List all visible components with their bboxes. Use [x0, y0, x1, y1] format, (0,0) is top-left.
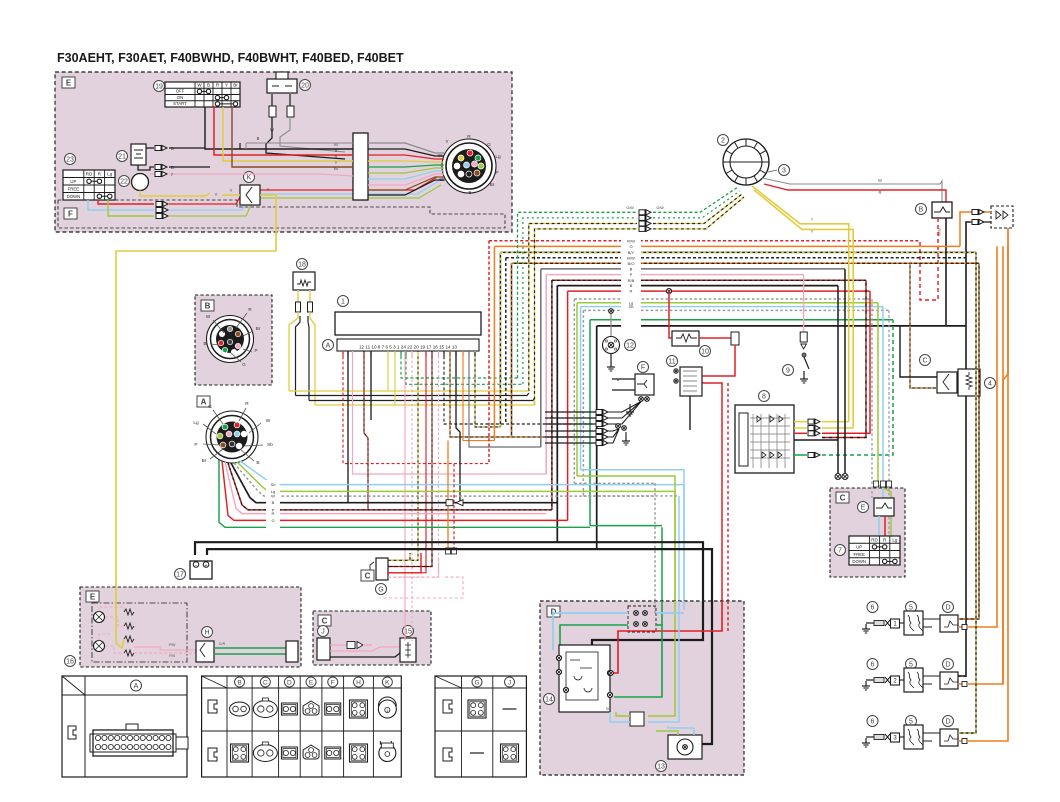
spark plug D row 2	[943, 659, 954, 670]
CDI outputs Y2	[794, 427, 807, 429]
bus wire P y=274.6	[546, 274, 803, 276]
svg-text:A: A	[201, 398, 207, 407]
label 14	[544, 694, 555, 705]
legend connector H row1	[350, 700, 368, 718]
plug number box 2	[891, 676, 900, 685]
svg-text:14: 14	[545, 697, 553, 704]
svg-text:P: P	[630, 272, 633, 277]
legend corner glyph row1	[208, 700, 217, 713]
fan wires joint bar to round connector	[368, 143, 444, 153]
bus wire RB y=280.3	[552, 279, 866, 281]
label 8	[759, 391, 770, 402]
svg-text:Lg: Lg	[107, 172, 113, 177]
wire O diode right edge down	[1003, 228, 1008, 684]
legend table A	[62, 676, 187, 777]
battery cable 1	[195, 542, 703, 601]
svg-text:Sb: Sb	[267, 442, 273, 448]
label B	[201, 300, 214, 311]
bus corner vertical Wd x=574.3	[573, 299, 575, 483]
svg-text:G: G	[208, 404, 212, 410]
bus corner vertical O x=494.4	[493, 246, 495, 440]
svg-text:Y: Y	[335, 160, 338, 165]
grounds below CDI	[837, 286, 839, 473]
bus wire B y=325.9	[597, 325, 966, 327]
svg-text:E: E	[90, 593, 96, 602]
ground joint 2	[625, 432, 627, 436]
svg-text:Lg: Lg	[495, 154, 501, 160]
plug number box 1	[891, 619, 900, 628]
legend table B-K	[202, 676, 402, 777]
ignition coil 5 row 1	[906, 602, 917, 613]
svg-text:W: W	[271, 494, 275, 499]
wire W flywheel to rectifier	[762, 178, 942, 202]
svg-text:B: B	[468, 190, 471, 196]
label 13	[656, 761, 667, 772]
svg-text:UP: UP	[70, 179, 76, 184]
svg-text:3: 3	[782, 168, 786, 175]
svg-text:B/W: B/W	[627, 255, 635, 260]
label 11	[667, 356, 678, 367]
indicator lamp 1	[94, 612, 105, 623]
bus wire BW y=257.8	[506, 257, 966, 259]
bus corner vertical RB x=551.9	[551, 280, 553, 510]
thermo leads Y/B	[297, 290, 299, 302]
wire B CDI to ground stem	[794, 439, 838, 441]
svg-text:START: START	[173, 101, 187, 106]
svg-text:D: D	[945, 719, 950, 726]
connector pair block	[630, 712, 644, 726]
label A	[197, 396, 210, 407]
bus wire BO y=263.2	[512, 262, 980, 264]
label J	[318, 626, 329, 637]
legend header D	[284, 677, 294, 687]
wire R bus to fuse	[666, 289, 671, 294]
svg-text:W: W	[878, 178, 882, 183]
ground 2 label 6	[867, 659, 878, 670]
bus corner vertical P x=546.2	[545, 275, 547, 474]
label 21	[117, 151, 128, 162]
svg-text:OFF: OFF	[176, 89, 185, 94]
svg-text:P: P	[495, 170, 498, 176]
svg-text:Lg: Lg	[193, 420, 199, 426]
connector C and ignition coil 4	[920, 355, 931, 366]
label C	[836, 492, 849, 503]
svg-text:−: −	[195, 563, 198, 569]
svg-text:B: B	[919, 207, 924, 214]
PTT switch box C right	[830, 488, 905, 577]
main connector A (10-pin round)	[206, 411, 258, 463]
svg-text:F30AEHT, F30AET, F40BWHD, F40B: F30AEHT, F30AET, F40BWHD, F40BWHT, F40BE…	[57, 51, 404, 65]
svg-text:A: A	[326, 343, 331, 350]
legend connector D row2	[281, 747, 297, 759]
legend connector H row2	[350, 744, 368, 762]
connector box B	[195, 295, 272, 385]
fuel injection component F	[635, 374, 654, 395]
label 16	[65, 656, 76, 667]
bundle label strip	[266, 480, 280, 532]
flywheel magneto 2	[723, 139, 769, 185]
ECU pin color labels	[342, 352, 344, 357]
svg-text:Lg: Lg	[892, 537, 898, 542]
warning buzzer 22	[132, 174, 149, 191]
PTT relay unit	[559, 645, 610, 712]
legend connector C row2	[253, 745, 277, 762]
label G	[376, 584, 387, 595]
legend corner glyph row2	[208, 748, 217, 761]
svg-text:F: F	[68, 210, 73, 219]
svg-text:4: 4	[988, 381, 992, 388]
bundle wire Lg y=491.4	[237, 462, 675, 491]
legend J row1	[503, 708, 517, 710]
wires into box C	[871, 299, 873, 498]
svg-text:W: W	[334, 142, 338, 147]
bullet connectors on PTT wires	[873, 481, 878, 487]
bus corner vertical BW x=505.8	[505, 258, 507, 424]
wire Sb staircase into box D	[581, 470, 684, 610]
svg-text:6: 6	[871, 719, 875, 726]
label C	[318, 615, 331, 626]
bundle wire P y=513.6	[225, 462, 546, 514]
bus corner vertical Wd x=583.4	[582, 310, 584, 496]
wire B connector 21 to bar	[169, 147, 205, 149]
legend header E	[306, 677, 316, 687]
joint connector fan 2	[616, 424, 621, 429]
big multipin connector drawing	[93, 730, 173, 756]
wire R pair inside box D	[727, 601, 729, 631]
svg-text:C: C	[922, 358, 927, 365]
coil output dashed row 1	[958, 263, 979, 619]
legend G row2	[470, 752, 484, 754]
legend header G	[472, 677, 482, 687]
bundle wire B y=502.7	[231, 463, 557, 503]
wire Sb2 into box D	[678, 496, 680, 612]
ECU pin wire x=401 GW	[401, 351, 518, 378]
svg-text:E: E	[309, 679, 314, 686]
svg-text:18: 18	[298, 262, 306, 269]
svg-text:13: 13	[657, 764, 665, 771]
inner dash-dot box	[92, 603, 187, 662]
ECU pin wire x=405 P	[404, 351, 406, 641]
CDI output RB	[822, 280, 866, 437]
label 15	[403, 626, 414, 637]
label 2	[718, 135, 729, 146]
svg-text:12 11 10 8 7 6 5 3 1 24 2: 12 11 10 8 7 6 5 3 1 24 22 20 19 17 16 1…	[359, 345, 457, 350]
svg-text:B: B	[335, 148, 338, 153]
svg-text:R: R	[878, 190, 881, 195]
label 22	[119, 176, 130, 187]
joint connector fan 1	[639, 397, 644, 402]
svg-text:F: F	[641, 365, 645, 372]
bus corner vertical R x=567.6	[567, 291, 569, 520]
legend connector K row2	[380, 741, 391, 744]
wire W/G lighting	[523, 218, 637, 384]
bus corner vertical B x=557.3	[556, 286, 558, 543]
wire RW rectifier loop	[920, 218, 938, 300]
bundle wire RB y=509.9	[228, 463, 552, 510]
svg-text:B: B	[257, 136, 260, 141]
svg-text:Sb: Sb	[629, 304, 635, 309]
power trim switch table 23	[63, 170, 115, 200]
pink wires from ECU into 15	[404, 611, 406, 641]
wire Y/B lighting 1	[529, 224, 637, 392]
svg-text:B: B	[630, 283, 633, 288]
ECU pin wire x=352.5 P	[353, 275, 547, 474]
legend connector K row1	[378, 700, 396, 718]
legend header J	[505, 677, 515, 687]
wires to connector C	[900, 326, 937, 377]
bundle wire G y=527.3	[219, 460, 590, 527]
svg-text:R/W: R/W	[627, 238, 635, 243]
svg-text:8: 8	[762, 394, 766, 401]
legend table G-J	[435, 676, 526, 777]
ground joint 1	[629, 404, 631, 407]
trailer switch connector K	[240, 185, 260, 205]
connector J	[317, 638, 330, 660]
pink service loop	[380, 577, 463, 598]
coil output dashed row 2	[958, 674, 966, 676]
label B	[916, 204, 927, 215]
bus corner vertical Sb x=580.6	[580, 307, 582, 470]
legend J row2	[501, 744, 519, 762]
svg-text:W: W	[206, 314, 211, 319]
harness joint bar	[353, 133, 368, 200]
svg-text:+: +	[205, 563, 208, 569]
ECU pin wire x=412 Pd	[411, 351, 413, 641]
rectifier regulator B	[932, 202, 952, 218]
CDI output G	[794, 454, 807, 456]
lamp box E 16	[80, 587, 301, 667]
remote control unit box E	[55, 72, 512, 232]
bus wire RW y=240.7	[489, 240, 920, 242]
legend G row1	[468, 700, 486, 718]
svg-text:19: 19	[155, 84, 163, 91]
svg-text:FREE: FREE	[853, 552, 865, 557]
diode rectifier unit 4 top-right	[991, 206, 1013, 228]
CDI outputs Y	[794, 421, 807, 423]
label 19	[154, 81, 165, 92]
label E	[62, 77, 75, 88]
coil output orange row 2	[958, 683, 964, 685]
legend header K	[382, 677, 392, 687]
wire 21 to connector	[146, 147, 154, 149]
ECU pin wire x=348 B	[270, 351, 348, 503]
wire G into trail box	[656, 624, 662, 626]
svg-text:Y: Y	[811, 229, 814, 234]
battery cable 2 inside box D	[700, 601, 712, 744]
svg-text:6: 6	[871, 605, 875, 612]
svg-text:10: 10	[701, 349, 709, 356]
svg-text:A: A	[134, 683, 139, 690]
svg-text:R: R	[245, 401, 249, 407]
svg-text:R/W: R/W	[937, 228, 941, 236]
legend header B	[235, 677, 245, 687]
wire R pair down from relay to box D	[702, 383, 722, 648]
engine stop switch 20	[267, 79, 297, 93]
main switch table 19	[165, 82, 240, 107]
svg-text:20: 20	[301, 83, 309, 90]
svg-text:Br: Br	[334, 166, 339, 171]
wire P to bar	[169, 174, 353, 176]
bus label strip	[621, 236, 641, 331]
bus wire Wd y=310.4	[583, 309, 889, 311]
wire Y/B lighting 2	[535, 229, 638, 405]
wire W staircase into box D	[574, 482, 655, 484]
svg-text:11: 11	[668, 359, 675, 366]
coil output orange row 1	[958, 626, 964, 628]
ECU pin wire x=364 RB	[364, 351, 368, 510]
svg-text:K: K	[385, 679, 390, 686]
wire P/W to connector H	[134, 652, 196, 654]
ECU pin wire x=438.5 Pd	[385, 351, 439, 577]
svg-text:6: 6	[871, 662, 875, 669]
bus corner vertical BY x=500.4	[499, 252, 501, 427]
ECU pin wire x=426 R	[385, 351, 426, 573]
svg-text:E: E	[66, 79, 72, 88]
ignition coil 5 row 2	[906, 659, 917, 670]
svg-text:R: R	[630, 289, 633, 294]
legend connector B row2	[231, 744, 249, 762]
PTT unit box D	[540, 601, 744, 775]
bus corner vertical Lg x=577.0	[576, 303, 578, 476]
ECU pin wire x=395 Y	[394, 351, 396, 405]
svg-text:Y: Y	[230, 188, 233, 193]
ignition coil 5 row 3	[906, 716, 917, 727]
wire Y/B thermo to coil line strands	[289, 390, 529, 392]
bus corner vertical G x=590.0	[589, 320, 591, 526]
svg-text:G: G	[378, 587, 383, 594]
trim sub-box F	[58, 200, 505, 228]
ECU pin wire x=450 BO	[450, 351, 594, 437]
wire R into relay	[613, 601, 722, 673]
connector G wires	[388, 553, 410, 560]
yellow wire into lamp box	[116, 587, 124, 648]
label 1	[338, 296, 349, 307]
connector H	[196, 641, 214, 662]
bus wire R y=291.1	[568, 290, 870, 292]
spark plug D row 1	[943, 602, 954, 613]
ECU pin wire x=456 B	[456, 351, 460, 503]
label D	[547, 606, 560, 617]
svg-text:G: G	[487, 142, 491, 148]
label F	[64, 208, 77, 219]
relay contacts	[674, 369, 678, 373]
svg-text:B: B	[203, 341, 206, 346]
svg-text:RD: RD	[86, 172, 93, 177]
main harness connector (round, 10-pin)	[442, 139, 496, 193]
ground below 9	[803, 374, 805, 379]
svg-text:B: B	[205, 302, 211, 311]
legend connector B row1	[230, 702, 250, 716]
diode on pink wire	[330, 644, 347, 646]
bus wire O y=246.4	[494, 245, 960, 247]
dangling service wire RW	[453, 464, 455, 548]
dangling service wire O	[447, 441, 449, 548]
svg-text:P/B: P/B	[169, 654, 175, 658]
label A	[323, 340, 334, 351]
trim sender 15	[400, 638, 416, 662]
svg-text:ON: ON	[177, 95, 183, 100]
bus wire Bg y=268.9	[541, 268, 845, 270]
wire Lg Sb to connector pairs	[648, 640, 675, 716]
ECU pin wire x=475 BY	[475, 351, 500, 427]
bundle wire R y=520.4	[222, 461, 568, 520]
svg-text:C: C	[840, 494, 846, 503]
svg-text:R: R	[467, 134, 471, 140]
ECU pin wire x=432 RB	[385, 351, 432, 567]
sensor 12 leads	[610, 310, 612, 336]
label 12	[625, 340, 636, 351]
ECU pin wire x=343 RW	[343, 351, 489, 464]
lamp wiring pink dashed	[99, 607, 124, 612]
ECU pin wire x=469 Bg	[469, 351, 541, 447]
label 3 pulser coil	[779, 165, 790, 176]
bundle wire Wd y=496.1	[234, 463, 655, 496]
legend connector F row1	[325, 703, 341, 715]
ECU pin wire x=406 GW	[406, 351, 523, 384]
resistors	[124, 609, 134, 615]
legend header C	[260, 677, 270, 687]
svg-text:Y: Y	[214, 192, 217, 197]
wire G into relay	[614, 625, 662, 697]
CDI output R	[794, 432, 807, 434]
svg-text:R: R	[272, 511, 275, 516]
svg-text:FREE: FREE	[68, 187, 80, 192]
svg-text:G: G	[242, 362, 246, 367]
legend corner glyphs table3	[443, 700, 452, 713]
svg-text:J: J	[508, 679, 511, 686]
label 4	[985, 378, 996, 389]
svg-text:H: H	[356, 679, 361, 686]
svg-text:C: C	[365, 572, 371, 581]
wire R holder to main relay	[702, 345, 735, 376]
svg-text:Y: Y	[267, 187, 270, 192]
stop switch leads with fuses	[271, 94, 273, 106]
svg-text:23: 23	[66, 157, 74, 164]
svg-text:DOWN: DOWN	[852, 559, 866, 564]
svg-text:D: D	[945, 605, 950, 612]
ground 3 label 6	[867, 716, 878, 727]
fuse 10	[672, 331, 699, 346]
svg-text:W: W	[266, 418, 271, 424]
svg-text:Br: Br	[490, 182, 495, 188]
label K	[244, 172, 255, 183]
legend connector D row1	[281, 703, 297, 715]
spark gap ground 2	[866, 679, 874, 681]
legend connector C row1	[253, 701, 277, 718]
svg-text:16: 16	[66, 659, 74, 666]
battery cable 1 inside box D	[592, 601, 703, 645]
wire Y to K	[222, 194, 240, 196]
coil output dashed row 3	[958, 252, 976, 733]
wire R fuse to holder	[699, 337, 735, 339]
remote connector G	[376, 558, 388, 580]
svg-text:B: B	[630, 267, 633, 272]
bus corner vertical B x=596.7	[596, 326, 598, 549]
engine side connector	[286, 641, 298, 662]
bus wire Wd y=299.0	[574, 298, 872, 300]
label F	[638, 362, 649, 373]
svg-text:B: B	[207, 82, 210, 87]
legend connector E row2	[303, 745, 319, 759]
component F leads	[612, 378, 635, 380]
svg-text:P: P	[194, 442, 197, 448]
legend connector E row1	[303, 701, 319, 715]
wire P to connector	[150, 173, 154, 175]
bus wire BY y=252.4	[500, 251, 976, 253]
wire G/W lighting	[518, 212, 638, 378]
spark gap ground 1	[866, 622, 874, 624]
oil pressure switch 9	[803, 275, 805, 332]
